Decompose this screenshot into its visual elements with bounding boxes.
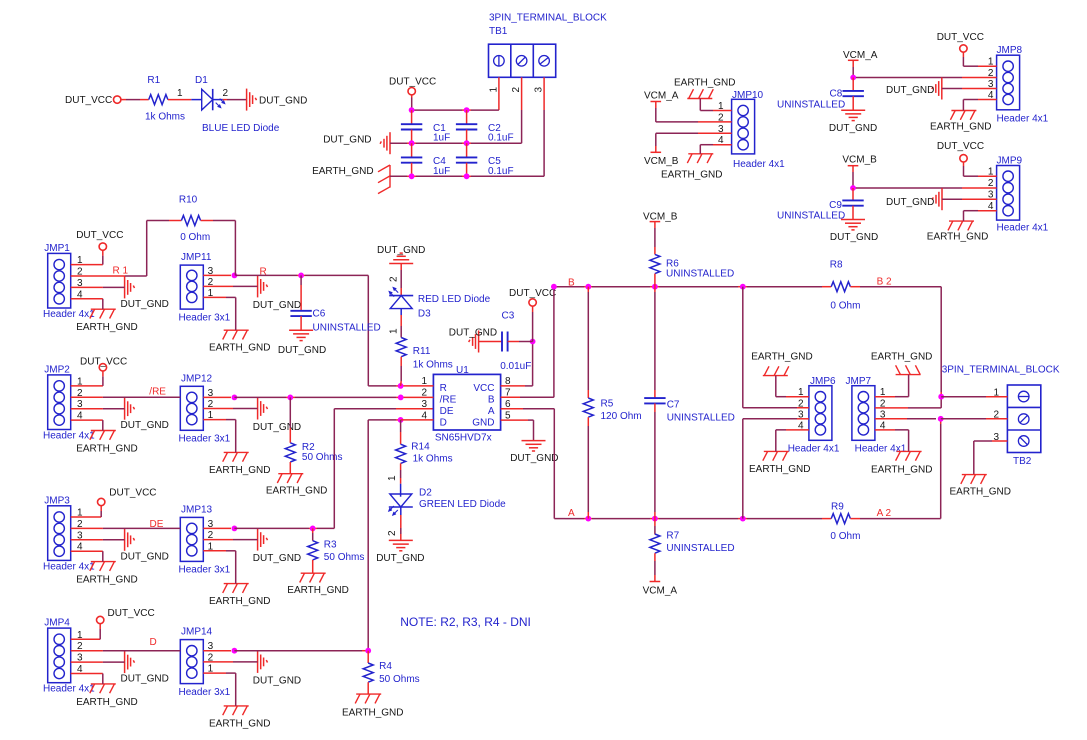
junction (A/R5) xyxy=(585,516,591,522)
diode D3 (red LED) xyxy=(389,288,413,309)
wire U1 pin4 to R14 xyxy=(400,420,402,444)
svg-text:/RE: /RE xyxy=(440,395,457,406)
label SN65HVD7x xyxy=(435,432,492,443)
label JMP7 xyxy=(846,376,872,387)
svg-text:JMP12: JMP12 xyxy=(181,373,213,384)
wire VCM_A row to JMP8 pin2 xyxy=(853,77,996,79)
connector JMP9 xyxy=(997,166,1020,221)
pin number 1 (D3) xyxy=(389,328,400,334)
capacitor C9 xyxy=(842,188,863,220)
pin number 1 (D1) xyxy=(177,88,183,99)
junction (B/R5) xyxy=(585,284,591,290)
connector JMP11 xyxy=(180,265,203,309)
svg-text:3PIN_TERMINAL_BLOCK: 3PIN_TERMINAL_BLOCK xyxy=(489,13,607,24)
label JMP2 xyxy=(44,365,70,376)
svg-text:Header 3x1: Header 3x1 xyxy=(179,687,231,698)
ground EARTH_GND (JMP8 pin4) xyxy=(930,111,992,133)
pin number 3 (TB1) xyxy=(534,87,545,93)
svg-text:3PIN_TERMINAL_BLOCK: 3PIN_TERMINAL_BLOCK xyxy=(942,365,1060,376)
label R1 xyxy=(147,75,160,86)
svg-text:Header 4x1: Header 4x1 xyxy=(997,114,1049,125)
label R5 xyxy=(601,398,614,409)
pin numbers U1 right xyxy=(505,376,511,421)
connector JMP6 xyxy=(809,386,832,441)
net label DE xyxy=(150,519,164,530)
wire JMP6 pin3 to net A xyxy=(743,419,809,519)
power DUT_VCC (JMP2 pin1) xyxy=(80,356,127,371)
pin number 1 (TB1) xyxy=(489,87,500,93)
node VCM_B (R6) xyxy=(643,211,678,222)
svg-text:DUT_GND: DUT_GND xyxy=(323,135,371,146)
svg-text:BLUE LED Diode: BLUE LED Diode xyxy=(202,123,280,134)
svg-text:TB1: TB1 xyxy=(489,26,508,37)
svg-text:D3: D3 xyxy=(418,308,431,319)
svg-text:VCM_B: VCM_B xyxy=(842,155,877,166)
label UNINSTALLED (C6) xyxy=(313,323,381,334)
svg-text:DUT_GND: DUT_GND xyxy=(259,95,307,106)
ground DUT_GND (JMP9 pin3) xyxy=(886,188,942,210)
pin labels U1 right xyxy=(472,383,495,428)
label Header 4x1 (JMP3) xyxy=(43,561,95,572)
wire VCM_A to C8 node xyxy=(852,60,854,77)
pin numbers U1 left xyxy=(421,376,427,421)
svg-text:R8: R8 xyxy=(830,260,843,271)
ground DUT_GND (JMP11 pin2) xyxy=(253,275,301,311)
label 3PIN_TERMINAL_BLOCK (TB2) xyxy=(942,365,1060,376)
label 50 Ohms (R4) xyxy=(379,674,420,685)
svg-text:Header 4x1: Header 4x1 xyxy=(997,223,1049,234)
power DUT_VCC (JMP8) xyxy=(937,32,984,52)
label D2 xyxy=(419,488,432,499)
wire net R (JMP11 to U1 pin1) xyxy=(235,275,400,386)
svg-text:JMP4: JMP4 xyxy=(44,618,70,629)
ground DUT_GND (JMP14 pin2) xyxy=(253,651,301,687)
power DUT_VCC (JMP4 pin1) xyxy=(97,608,155,624)
svg-text:50 Ohms: 50 Ohms xyxy=(379,674,420,685)
junction (VCM_A/C8) xyxy=(850,75,856,81)
svg-text:UNINSTALLED: UNINSTALLED xyxy=(777,210,845,221)
svg-text:EARTH_GND: EARTH_GND xyxy=(950,487,1012,498)
svg-text:JMP1: JMP1 xyxy=(44,243,70,254)
label JMP8 xyxy=(997,45,1023,56)
ground DUT_GND (JMP1 pin3) xyxy=(121,276,169,310)
svg-text:EARTH_GND: EARTH_GND xyxy=(674,78,736,89)
ground EARTH_GND top (JMP7) xyxy=(871,352,933,375)
junction (JMP11 pin3) xyxy=(232,273,238,279)
svg-text:JMP8: JMP8 xyxy=(997,45,1023,56)
svg-text:EARTH_GND: EARTH_GND xyxy=(930,122,992,133)
wire DUT_VCC to R1 xyxy=(121,99,149,101)
ground EARTH_GND top (JMP6) xyxy=(751,352,813,376)
label 0 Ohm (R9) xyxy=(830,531,860,542)
svg-text:D1: D1 xyxy=(195,75,208,86)
pin number 2 (D1) xyxy=(223,88,229,99)
label C6 xyxy=(313,309,326,320)
svg-text:Header 4x1: Header 4x1 xyxy=(43,309,95,320)
label Header 4x1 (JMP4) xyxy=(43,684,95,695)
wire VCC row (TB1) xyxy=(412,109,499,111)
label R8 xyxy=(830,260,843,271)
ground EARTH_GND bottom (JMP7) xyxy=(871,451,933,475)
wire TB2 pin3 to EARTH_GND xyxy=(974,441,1008,475)
svg-text:JMP7: JMP7 xyxy=(846,376,872,387)
svg-text:A: A xyxy=(488,406,495,417)
pin numbers JMP11 xyxy=(208,266,214,299)
svg-text:JMP2: JMP2 xyxy=(44,365,70,376)
op-amp U1 (SN65HVD7x transceiver) xyxy=(433,374,500,430)
svg-text:DUT_GND: DUT_GND xyxy=(253,422,301,433)
ground EARTH_GND (JMP1 pin4) xyxy=(76,309,138,333)
wire net DE (JMP13 to U1 pin3) xyxy=(234,409,433,529)
svg-text:EARTH_GND: EARTH_GND xyxy=(871,465,933,476)
label D1 xyxy=(195,75,208,86)
svg-text:DUT_GND: DUT_GND xyxy=(121,674,169,685)
label Header 4x1 (JMP10) xyxy=(733,159,785,170)
svg-text:DUT_GND: DUT_GND xyxy=(376,553,424,564)
label C7 xyxy=(667,399,680,410)
svg-text:C3: C3 xyxy=(502,311,515,322)
svg-text:DUT_VCC: DUT_VCC xyxy=(76,230,123,241)
wire JMP12 pin2 to DUT_GND xyxy=(203,408,257,410)
wire net A bus xyxy=(565,518,831,520)
wire R11 to U1 pin1 xyxy=(400,357,403,386)
wire JMP14 pin2 to DUT_GND xyxy=(203,661,257,663)
junction (VCC row C1) xyxy=(409,107,415,113)
ground EARTH_GND (JMP3 pin4) xyxy=(76,562,138,586)
svg-text:R 1: R 1 xyxy=(113,266,129,277)
resistor R11 xyxy=(396,338,406,357)
power DUT_VCC (U1) xyxy=(509,288,556,306)
wire DUT_VCC to C3 node xyxy=(532,306,534,342)
svg-text:EARTH_GND: EARTH_GND xyxy=(209,343,271,354)
label JMP4 xyxy=(44,618,70,629)
wire D3 to R11 xyxy=(400,309,402,338)
junction (VCM_B/C9) xyxy=(850,185,856,191)
wire JMP11 pin1 to EARTH_GND xyxy=(203,297,235,330)
wire JMP1 pin3 to DUT_GND xyxy=(71,286,125,288)
svg-text:2: 2 xyxy=(511,87,522,93)
wire JMP7 pin1 to EARTH_GND xyxy=(875,375,909,397)
label R9 xyxy=(831,501,844,512)
ground EARTH_GND bottom (JMP10) xyxy=(661,154,723,181)
wire U1 pin7 to net B xyxy=(501,287,554,398)
label 50 Ohms (R3) xyxy=(324,552,365,563)
wire JMP2 pin1 to DUT_VCC xyxy=(71,371,103,386)
svg-text:D: D xyxy=(150,637,157,648)
svg-text:JMP14: JMP14 xyxy=(181,627,213,638)
label Header 4x1 (JMP9) xyxy=(997,223,1049,234)
wire DUT_VCC to C1 node xyxy=(411,95,413,110)
net label D xyxy=(150,637,157,648)
svg-text:Header 4x1: Header 4x1 xyxy=(43,431,95,442)
svg-text:DUT_GND: DUT_GND xyxy=(886,85,934,96)
svg-text:DUT_GND: DUT_GND xyxy=(829,123,877,134)
svg-text:0 Ohm: 0 Ohm xyxy=(830,300,860,311)
svg-text:DUT_GND: DUT_GND xyxy=(253,675,301,686)
svg-text:C6: C6 xyxy=(313,309,326,320)
power DUT_VCC (JMP1 pin1) xyxy=(76,230,123,251)
ground EARTH_GND (JMP9 pin4) xyxy=(927,221,989,242)
svg-text:GND: GND xyxy=(472,417,494,428)
junction (A/JMP6) xyxy=(740,516,746,522)
svg-text:JMP13: JMP13 xyxy=(181,504,213,515)
wire net A_2 xyxy=(850,419,940,519)
junction (net /RE / R2) xyxy=(287,395,293,401)
resistor R6 xyxy=(650,254,660,273)
wire R7 to VCM_A xyxy=(654,553,656,581)
connector JMP8 xyxy=(997,55,1020,110)
wire JMP10 pin1 to EARTH_GND xyxy=(700,99,731,111)
label C4 xyxy=(433,156,450,177)
svg-text:NOTE: R2, R3, R4 - DNI: NOTE: R2, R3, R4 - DNI xyxy=(400,615,531,629)
wire D2 to DUT_GND xyxy=(400,507,402,540)
label R14 xyxy=(411,441,430,452)
wire JMP1 pin4 to EARTH_GND xyxy=(71,299,103,309)
ground EARTH_GND top (JMP10) xyxy=(674,78,736,99)
wire DUT_GND row (TB1) xyxy=(390,142,522,144)
junction (VCC row C2) xyxy=(464,107,470,113)
wire JMP13 pin3 stub xyxy=(203,527,231,529)
pin numbers JMP3 xyxy=(77,508,83,553)
resistor R10 xyxy=(147,216,236,276)
ground EARTH_GND (R3) xyxy=(287,573,349,596)
ground DUT_GND (U1 pin5) xyxy=(510,441,558,464)
svg-text:DUT_GND: DUT_GND xyxy=(121,551,169,562)
svg-text:1: 1 xyxy=(489,87,500,93)
label UNINSTALLED (C9) xyxy=(777,210,845,221)
svg-text:A: A xyxy=(568,508,575,519)
wire JMP11 pin2 to DUT_GND xyxy=(203,285,257,287)
label UNINSTALLED (C8) xyxy=(777,99,845,110)
capacitor C6 xyxy=(290,275,311,330)
note DNI xyxy=(400,615,531,629)
wire JMP8 pin3 to DUT_GND xyxy=(942,88,997,90)
wire JMP13 pin2 to DUT_GND xyxy=(203,539,257,541)
svg-text:1uF: 1uF xyxy=(433,166,450,177)
terminal block TB1 xyxy=(489,44,556,77)
svg-text:R11: R11 xyxy=(413,346,431,357)
wire JMP9 pin1 to DUT_VCC xyxy=(964,162,997,176)
wire U1 pin5 to DUT_GND xyxy=(501,420,534,441)
ground DUT_GND (D3) xyxy=(377,245,425,264)
svg-text:SN65HVD7x: SN65HVD7x xyxy=(435,432,492,443)
junction (JMP14 pin3) xyxy=(232,648,238,654)
wire JMP7 pin3 to net A_2 xyxy=(875,418,936,420)
svg-text:Header 4x1: Header 4x1 xyxy=(43,561,95,572)
wire JMP4 pin1 to DUT_VCC xyxy=(71,623,101,639)
svg-text:50 Ohms: 50 Ohms xyxy=(324,552,365,563)
pin numbers JMP14 xyxy=(208,641,214,674)
label JMP10 xyxy=(732,90,764,101)
wire DUT_GND to D3 xyxy=(400,264,402,296)
pin numbers JMP12 xyxy=(208,388,214,421)
svg-text:EARTH_GND: EARTH_GND xyxy=(342,708,404,719)
label 0.01uF (C3) xyxy=(500,361,531,372)
junction (C3/VCC) xyxy=(530,339,536,345)
wire net /RE (JMP12 to U1 pin2) xyxy=(234,396,400,398)
pin numbers JMP8 xyxy=(988,57,994,101)
wire JMP12 pin3 stub xyxy=(203,396,231,398)
junction (EARTH row C4) xyxy=(409,173,415,179)
junction (B/R6/C7) xyxy=(652,284,658,290)
resistor R7 xyxy=(650,534,660,553)
wire JMP10 pin2 to VCM_A xyxy=(656,102,732,122)
wire JMP4 pin4 to EARTH_GND xyxy=(71,674,103,684)
pin numbers JMP9 xyxy=(988,167,994,213)
svg-text:UNINSTALLED: UNINSTALLED xyxy=(667,413,735,424)
svg-text:EARTH_GND: EARTH_GND xyxy=(287,585,349,596)
junction (A/R7/C7) xyxy=(652,516,658,522)
svg-text:DUT_VCC: DUT_VCC xyxy=(109,488,156,499)
label 120 Ohm (R5) xyxy=(601,411,642,422)
svg-text:DUT_VCC: DUT_VCC xyxy=(108,608,155,619)
svg-text:U1: U1 xyxy=(456,365,469,376)
label JMP1 xyxy=(44,243,70,254)
wire B to R5 xyxy=(587,287,589,398)
junction (JMP13 pin3) xyxy=(232,526,238,532)
label UNINSTALLED (R6) xyxy=(666,268,734,279)
svg-text:B: B xyxy=(488,395,495,406)
svg-text:3: 3 xyxy=(534,87,545,93)
wire VCM_B to C9 node xyxy=(852,166,854,188)
ground EARTH_GND (JMP11 pin1) xyxy=(209,330,271,354)
junction (net DE / R3) xyxy=(310,526,316,532)
junction (GND row C2) xyxy=(464,140,470,146)
svg-text:DUT_GND: DUT_GND xyxy=(253,553,301,564)
resistor R4 xyxy=(363,651,373,694)
svg-text:EARTH_GND: EARTH_GND xyxy=(209,596,271,607)
svg-text:1uF: 1uF xyxy=(433,133,450,144)
label Header 3x1 (JMP11) xyxy=(179,312,231,323)
net label A xyxy=(568,508,575,519)
connector JMP2 xyxy=(48,375,71,430)
label Header 4x1 (JMP7) xyxy=(855,444,907,455)
label JMP14 xyxy=(181,627,213,638)
label UNINSTALLED (R7) xyxy=(666,543,734,554)
label 1k Ohms (R14) xyxy=(413,454,453,465)
svg-text:DUT_GND: DUT_GND xyxy=(510,453,558,464)
svg-text:120 Ohm: 120 Ohm xyxy=(601,411,642,422)
svg-text:Header 4x1: Header 4x1 xyxy=(733,159,785,170)
svg-text:R9: R9 xyxy=(831,501,844,512)
svg-text:EARTH_GND: EARTH_GND xyxy=(927,232,989,243)
ground DUT_GND (JMP13 pin2) xyxy=(253,529,301,565)
label U1 xyxy=(456,365,469,376)
svg-text:JMP9: JMP9 xyxy=(997,155,1023,166)
connector JMP7 xyxy=(852,386,875,441)
wire JMP14 pin1 to EARTH_GND xyxy=(203,673,235,706)
wire JMP3 pin2 (net DE) xyxy=(71,527,181,529)
label JMP6 xyxy=(810,376,836,387)
resistor R9 xyxy=(831,514,850,524)
node VCM_A (R7) xyxy=(643,582,678,597)
pin numbers JMP6 xyxy=(798,387,804,431)
svg-text:EARTH_GND: EARTH_GND xyxy=(76,443,138,454)
node VCM_B (C9) xyxy=(842,155,877,166)
svg-text:DUT_GND: DUT_GND xyxy=(253,300,301,311)
wire JMP4 pin2 (net D) xyxy=(71,650,181,652)
svg-text:R: R xyxy=(440,383,447,394)
wire JMP2 pin4 to EARTH_GND xyxy=(71,420,103,430)
svg-text:Header 4x1: Header 4x1 xyxy=(788,444,840,455)
pin number 3 (TB2) xyxy=(993,432,999,443)
svg-text:VCC: VCC xyxy=(473,383,494,394)
wire JMP9 pin3 to DUT_GND xyxy=(942,198,997,200)
label R2 xyxy=(302,442,315,453)
ground DUT_GND (C9) xyxy=(830,220,878,243)
wire JMP2 pin3 to DUT_GND xyxy=(71,408,125,410)
wire R14 to D2 xyxy=(400,463,402,496)
pin number 1 (D2) xyxy=(387,475,398,481)
resistor R8 xyxy=(831,282,850,292)
wire C7 to A xyxy=(654,403,656,518)
ground EARTH_GND bottom (JMP6) xyxy=(749,451,811,475)
node DUT_VCC (R1 input) xyxy=(65,95,121,106)
svg-text:EARTH_GND: EARTH_GND xyxy=(749,464,811,475)
junction (U1 pin1) xyxy=(398,383,404,389)
ground DUT_GND (JMP12 pin2) xyxy=(253,398,301,434)
svg-text:DUT_VCC: DUT_VCC xyxy=(80,356,127,367)
label 1k Ohms (R11) xyxy=(413,360,453,371)
svg-text:R10: R10 xyxy=(179,195,198,206)
label C8 xyxy=(830,89,843,100)
svg-text:DUT_GND: DUT_GND xyxy=(449,327,497,338)
svg-text:B 2: B 2 xyxy=(877,276,892,287)
ground DUT_GND (C8) xyxy=(829,110,877,134)
wire R5 to A xyxy=(587,417,589,518)
label 3PIN_TERMINAL_BLOCK (TB1) xyxy=(489,13,607,24)
svg-text:VCM_A: VCM_A xyxy=(643,585,678,596)
svg-text:1k Ohms: 1k Ohms xyxy=(145,112,185,123)
wire TB1 pin3 xyxy=(543,77,545,176)
wire JMP10 pin3 to VCM_B xyxy=(656,133,732,152)
svg-text:VCM_B: VCM_B xyxy=(643,211,678,222)
resistor R5 xyxy=(583,398,593,417)
capacitor C8 xyxy=(843,78,864,111)
svg-text:D2: D2 xyxy=(419,488,432,499)
svg-text:EARTH_GND: EARTH_GND xyxy=(871,352,933,363)
svg-text:TB2: TB2 xyxy=(1013,456,1032,467)
connector JMP10 xyxy=(732,99,755,154)
wire TB2 pin2 xyxy=(941,418,1008,420)
svg-text:0.01uF: 0.01uF xyxy=(500,361,531,372)
junction (B/JMP6) xyxy=(740,284,746,290)
diode D1 (blue LED) xyxy=(202,89,225,110)
wire JMP13 pin1 to EARTH_GND xyxy=(203,551,235,584)
capacitor C4 xyxy=(401,143,422,176)
label JMP12 xyxy=(181,373,213,384)
label R10 xyxy=(179,195,198,206)
capacitor C3 xyxy=(479,332,533,352)
label JMP13 xyxy=(181,504,213,515)
wire net D (JMP14 to U1 pin4) xyxy=(234,420,400,651)
svg-text:JMP6: JMP6 xyxy=(810,376,836,387)
pin numbers JMP7 xyxy=(880,387,886,431)
label Header 3x1 (JMP12) xyxy=(179,434,231,445)
svg-text:Header 3x1: Header 3x1 xyxy=(179,434,231,445)
svg-text:0 Ohm: 0 Ohm xyxy=(180,232,210,243)
svg-text:EARTH_GND: EARTH_GND xyxy=(312,166,374,177)
wire JMP3 pin3 to DUT_GND xyxy=(71,539,125,541)
label RED LED Diode xyxy=(418,294,491,305)
svg-text:UNINSTALLED: UNINSTALLED xyxy=(666,543,734,554)
pin numbers JMP1 xyxy=(77,255,83,300)
svg-text:50 Ohms: 50 Ohms xyxy=(302,452,343,463)
resistor R3 xyxy=(308,528,318,573)
svg-text:EARTH_GND: EARTH_GND xyxy=(751,352,813,363)
svg-text:UNINSTALLED: UNINSTALLED xyxy=(313,323,381,334)
svg-text:EARTH_GND: EARTH_GND xyxy=(266,485,328,496)
